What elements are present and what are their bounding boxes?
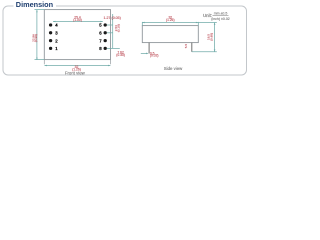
pin thickness dimension [141, 53, 149, 55]
pin 2 [49, 39, 52, 42]
side view right pin [191, 43, 193, 52]
svg-text:(1.26): (1.26) [166, 18, 175, 22]
pin 1 [49, 47, 52, 50]
svg-text:7: 7 [99, 38, 102, 43]
total height dimension line (right) [192, 23, 217, 52]
svg-text:(1.00): (1.00) [73, 18, 82, 22]
gap in border for title [14, 4, 57, 9]
pin 4 [49, 23, 52, 26]
outer group box border [3, 6, 247, 75]
svg-text:2: 2 [55, 38, 58, 43]
svg-text:Side view: Side view [164, 66, 183, 71]
pin 6 [104, 31, 107, 34]
svg-text:5.5: 5.5 [184, 44, 188, 49]
svg-text:5: 5 [99, 23, 102, 28]
svg-text:mm ±0.5: mm ±0.5 [214, 12, 228, 16]
svg-text:(0.02): (0.02) [150, 54, 159, 58]
side view left pin [148, 43, 150, 54]
package width dimension line (bottom) [44, 60, 110, 67]
svg-text:(0.30): (0.30) [116, 53, 125, 57]
pin 5 [104, 23, 107, 26]
svg-text:1: 1 [55, 46, 58, 51]
svg-text:3: 3 [55, 31, 58, 36]
svg-text:6: 6 [99, 31, 102, 36]
connector pin6 to dim line [107, 32, 113, 34]
svg-text:(0.90): (0.90) [34, 34, 38, 42]
svg-text:(0.10): (0.10) [117, 24, 121, 32]
side width dimension [142, 22, 217, 26]
svg-text:1.27 (0.05): 1.27 (0.05) [104, 16, 121, 20]
side view body outline [142, 26, 198, 43]
pin-column spacing dimension line [53, 21, 103, 23]
front view package outline [44, 10, 110, 60]
pin 3 [49, 31, 52, 34]
pin edge offset dimension 1.27 [112, 14, 114, 48]
package height dimension line (left) [35, 10, 45, 60]
svg-text:8: 8 [99, 46, 102, 51]
svg-text:Front view: Front view [65, 70, 86, 75]
pin 7 [104, 39, 107, 42]
svg-text:4: 4 [55, 23, 58, 28]
svg-text:Dimension: Dimension [16, 0, 53, 9]
connector pin8 to dim line [107, 47, 120, 49]
connector pin5 to dim line [107, 24, 113, 26]
svg-text:(0.65): (0.65) [209, 33, 213, 41]
svg-text:(inch) ±0.02: (inch) ±0.02 [211, 17, 230, 21]
pin 8 [104, 47, 107, 50]
